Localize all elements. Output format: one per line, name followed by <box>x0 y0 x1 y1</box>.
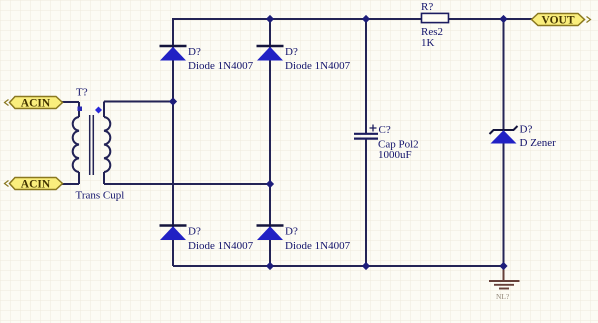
svg-text:Diode 1N4007: Diode 1N4007 <box>285 240 351 252</box>
wire transformer secondary bottom <box>104 183 270 185</box>
junction node top rail / zener branch <box>499 15 507 23</box>
wire capacitor branch lower <box>365 140 367 267</box>
junction node bottom rail / zener-ground <box>499 262 507 270</box>
svg-text:D Zener: D Zener <box>520 137 557 149</box>
diode D3 (bridge bottom-left) <box>160 226 187 241</box>
svg-text:ACIN: ACIN <box>21 179 51 191</box>
zener diode D5 <box>490 126 518 144</box>
svg-text:Trans Cupl: Trans Cupl <box>76 190 125 202</box>
svg-text:Res2: Res2 <box>421 26 443 38</box>
svg-text:D?: D? <box>188 226 201 238</box>
svg-text:1000uF: 1000uF <box>378 149 412 161</box>
junction node top rail / capacitor branch <box>362 15 370 23</box>
wire ACIN2 to transformer <box>62 183 79 185</box>
junction node transformer-secondary-bottom / right branch <box>266 180 274 188</box>
ground <box>489 266 520 301</box>
wire zener branch <box>503 19 505 266</box>
svg-text:T?: T? <box>76 87 88 99</box>
diode D4 (bridge bottom-right) <box>257 226 284 241</box>
port VOUT <box>532 14 591 27</box>
svg-text:NL?: NL? <box>496 292 510 301</box>
svg-text:D?: D? <box>285 46 298 58</box>
wire top rail right segment <box>449 18 532 20</box>
resistor R1 <box>422 13 449 22</box>
transformer T1 <box>73 102 111 185</box>
port ACIN (top) <box>5 97 63 110</box>
wire right bridge branch <box>269 19 271 266</box>
wire capacitor branch upper <box>365 19 367 133</box>
svg-text:1K: 1K <box>421 37 435 49</box>
svg-text:D?: D? <box>285 226 298 238</box>
junction node bottom rail / capacitor branch <box>362 262 370 270</box>
wire transformer secondary top <box>104 101 173 103</box>
junction node transformer-secondary-top / left branch <box>169 97 177 105</box>
wire left bridge branch <box>172 18 174 266</box>
svg-text:D?: D? <box>188 46 201 58</box>
svg-text:VOUT: VOUT <box>542 15 575 27</box>
svg-text:Diode 1N4007: Diode 1N4007 <box>188 240 254 252</box>
svg-text:Diode 1N4007: Diode 1N4007 <box>285 60 351 72</box>
svg-text:D?: D? <box>520 124 533 136</box>
capacitor C1 (Cap Pol2) <box>354 125 378 139</box>
junction node top rail / right branch <box>266 15 274 23</box>
diode D1 (bridge top-left) <box>160 46 187 61</box>
svg-text:ACIN: ACIN <box>21 98 51 110</box>
wire top rail left segment <box>173 18 422 20</box>
port ACIN (bottom) <box>5 178 63 191</box>
junction node bottom rail / right branch <box>266 262 274 270</box>
svg-text:R?: R? <box>421 1 433 13</box>
wire bottom rail <box>173 265 504 267</box>
svg-text:C?: C? <box>379 124 391 136</box>
svg-text:Diode 1N4007: Diode 1N4007 <box>188 60 254 72</box>
wire ACIN1 to transformer <box>62 101 79 103</box>
diode D2 (bridge top-right) <box>257 46 284 61</box>
